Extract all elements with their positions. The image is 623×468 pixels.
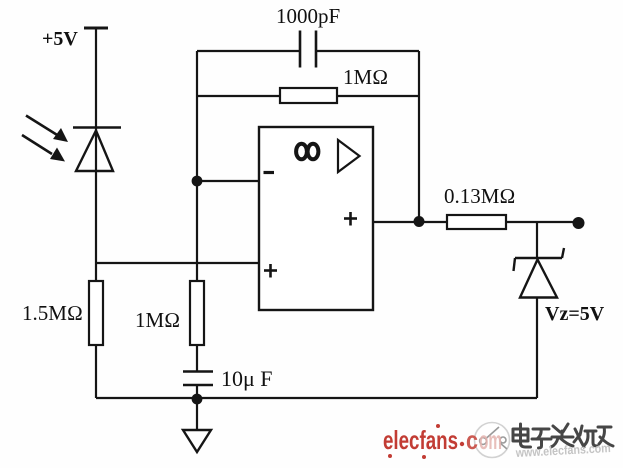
node: output junction	[414, 216, 425, 227]
wire: non-inverting input line	[96, 262, 259, 264]
watermark circle logo	[475, 423, 510, 458]
op-amp U1 gain triangle	[338, 140, 360, 172]
watermark Chinese characters (drawn strokes)	[513, 424, 613, 448]
wire: top feedback row right	[316, 50, 419, 52]
resistor R4 0.13M body	[447, 215, 506, 229]
wire: zener branch vertical top	[536, 222, 538, 259]
op-amp plus input label	[264, 264, 277, 278]
svg-text:om: om	[479, 425, 502, 455]
node: ground rail junction	[192, 394, 203, 405]
wire: feedback right vertical	[418, 51, 420, 221]
wire: junction to ground symbol	[196, 399, 198, 430]
wire: feedback resistor row	[197, 95, 419, 97]
resistor R2 1M vertical body	[190, 281, 204, 345]
wire: top feedback row left	[197, 50, 300, 52]
wire: C2 to ground rail	[196, 385, 198, 398]
svg-text:1MΩ: 1MΩ	[135, 308, 180, 332]
wire: feedback left vertical / inverting node	[196, 51, 198, 281]
+5V supply bar	[84, 27, 108, 30]
wire: R2 bottom to capacitor C2	[196, 345, 198, 371]
svg-text:www.elecfans.com: www.elecfans.com	[515, 441, 611, 460]
photodiode D1 cathode bar	[73, 126, 121, 129]
wire: inverting input line	[197, 180, 259, 182]
svg-text:c: c	[466, 425, 478, 455]
capacitor C2 10uF plates	[183, 372, 213, 386]
wire: R4 to output terminal	[506, 221, 578, 223]
op-amp minus input label	[264, 171, 275, 174]
photodiode D1 triangle	[76, 131, 113, 172]
node: inverting input junction	[192, 176, 203, 187]
light arrow 1	[26, 116, 68, 143]
svg-text:Vz=5V: Vz=5V	[545, 303, 605, 325]
capacitor C1 1000pF plates	[300, 31, 316, 68]
svg-text:1.5MΩ: 1.5MΩ	[22, 301, 83, 325]
node: output terminal dot	[573, 217, 585, 229]
wire: bottom ground rail	[96, 397, 537, 399]
light arrow 2	[22, 135, 65, 162]
watermark elecfans.com red text	[383, 424, 502, 459]
zener D2 cathode bar with hooks	[514, 248, 565, 271]
svg-text:+5V: +5V	[42, 28, 78, 50]
svg-text:10μ F: 10μ F	[221, 366, 273, 391]
wire: zener anode to ground rail	[536, 298, 538, 399]
svg-text:1000pF: 1000pF	[276, 4, 340, 28]
wire: R1 bottom to ground rail	[95, 345, 97, 398]
zener D2 triangle	[520, 260, 557, 298]
svg-text:0.13MΩ: 0.13MΩ	[444, 184, 516, 208]
op-amp U1 box	[259, 127, 373, 310]
op-amp output plus label	[344, 212, 357, 226]
resistor R3 1M horizontal body	[280, 88, 337, 103]
wire: +5V rail down through photodiode to R1 top	[95, 28, 97, 281]
svg-text:elecfans: elecfans	[383, 425, 458, 455]
svg-text:1MΩ: 1MΩ	[343, 65, 388, 89]
resistor R1 1.5M body	[89, 281, 103, 345]
op-amp U1 infinity symbol	[296, 144, 318, 160]
ground symbol	[183, 430, 211, 452]
wire: op-amp output	[373, 221, 447, 223]
